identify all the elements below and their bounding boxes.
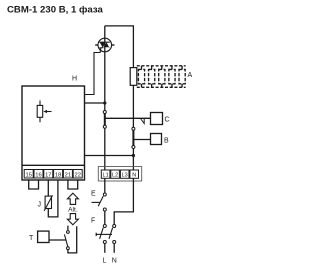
connector segment phase [104, 112, 106, 127]
wire N down to F [114, 178, 133, 224]
connector circle return bottom [132, 146, 135, 149]
thermostat switch top contact [67, 231, 70, 234]
switch F pole N bottom contact [113, 241, 116, 244]
switch F handle dot [95, 233, 97, 236]
wire T to lever [49, 239, 66, 241]
triac lead tick left [95, 44, 98, 46]
svg-text:T: T [29, 235, 34, 242]
wire mains L stub [104, 244, 106, 253]
triac U1 circle [98, 38, 112, 52]
terminal L3 [120, 170, 129, 179]
connector arrow C [141, 119, 144, 124]
wire triac gate to H [85, 48, 101, 94]
accessory box C [151, 113, 163, 125]
wire neutral H to N [85, 155, 134, 157]
wire phase vertical bus [104, 26, 106, 170]
switch F pole N lever [109, 228, 113, 239]
svg-text:N: N [132, 173, 136, 179]
heater A dashed top rail [137, 65, 186, 67]
potentiometer inside H [37, 101, 51, 123]
svg-text:L: L [103, 258, 107, 265]
connector circle return top [132, 127, 135, 130]
Alt arrow down [67, 214, 78, 225]
connector segment heater return [132, 129, 134, 147]
terminal 18 [54, 170, 63, 179]
terminal L1 [101, 170, 110, 179]
heater A dashed element 3 [159, 66, 165, 88]
wire thermostat return [68, 226, 77, 253]
switch E wire from L1 [104, 178, 106, 192]
Alt arrow up [67, 193, 78, 204]
terminal 15 [24, 170, 33, 179]
thermostat switch bottom contact [67, 247, 70, 250]
svg-text:J: J [38, 201, 42, 208]
svg-text:L2: L2 [112, 173, 118, 179]
wire B tap [133, 139, 150, 141]
switch E top contact [103, 193, 106, 196]
terminal strip divider [22, 164, 85, 166]
terminal 22 [73, 170, 82, 179]
svg-text:Alt.: Alt. [68, 207, 78, 214]
triac U1 triangles [99, 42, 109, 49]
wire top rail to heater [105, 26, 134, 68]
heating element A resistor [130, 68, 137, 86]
svg-text:15: 15 [25, 173, 31, 179]
wire E to F [104, 211, 106, 224]
svg-text:L3: L3 [122, 173, 128, 179]
svg-text:21: 21 [65, 173, 71, 179]
wire H to phase bus [85, 102, 105, 104]
sensor J return wire to 18 [48, 180, 58, 217]
svg-text:16: 16 [35, 173, 41, 179]
terminal 17 [44, 170, 53, 179]
jumper 21-22 [68, 180, 78, 189]
switch E bottom contact [103, 208, 106, 211]
sensor J diagonal [44, 195, 52, 211]
terminal 16 [34, 170, 43, 179]
junction dot neutral [132, 154, 135, 157]
heater A dashed bottom rail [137, 86, 186, 88]
thermostat switch stub [67, 226, 69, 231]
switch F link [96, 233, 112, 235]
svg-text:17: 17 [45, 173, 51, 179]
terminal 21 [63, 170, 72, 179]
svg-text:18: 18 [55, 173, 61, 179]
svg-text:F: F [91, 218, 95, 225]
thermostat T box [38, 231, 49, 242]
svg-text:L1: L1 [103, 173, 109, 179]
terminal L2 [111, 170, 120, 179]
svg-text:B: B [164, 138, 169, 145]
switch F pole L lever [100, 228, 104, 239]
heater A dashed element 1 [138, 66, 144, 88]
controller box H [22, 86, 85, 180]
triac lead tick right [111, 44, 114, 46]
heater A dashed element 5 [179, 66, 185, 88]
switch F pole L top contact [103, 225, 106, 228]
wire C tap [105, 117, 151, 119]
mains terminal strip outer [98, 167, 141, 182]
terminal N [130, 170, 139, 179]
switch E lever [98, 196, 103, 206]
thermostat switch lever [64, 234, 67, 246]
heater A dashed element 4 [169, 66, 175, 88]
svg-text:H: H [72, 76, 77, 83]
sensor J wire from 17 [47, 180, 49, 196]
svg-text:N: N [112, 258, 117, 265]
wire heater return [132, 85, 134, 170]
heater A dashed element 2 [149, 66, 155, 88]
jumper 15-16 [29, 180, 39, 189]
svg-text:СВМ-1 230 В, 1 фаза: СВМ-1 230 В, 1 фаза [7, 5, 103, 16]
svg-text:A: A [188, 72, 193, 79]
switch F pole L bottom contact [103, 241, 106, 244]
wire mains N stub [113, 244, 115, 253]
connector circle phase bottom [103, 125, 106, 128]
switch E tick [92, 201, 101, 203]
switch F pole N top contact [113, 225, 116, 228]
accessory box B [151, 134, 162, 145]
svg-text:22: 22 [74, 173, 80, 179]
sensor J body [45, 196, 51, 208]
connector circle phase top [103, 111, 106, 114]
svg-text:E: E [91, 191, 96, 198]
svg-text:C: C [165, 117, 170, 124]
junction dot phase [103, 101, 106, 104]
